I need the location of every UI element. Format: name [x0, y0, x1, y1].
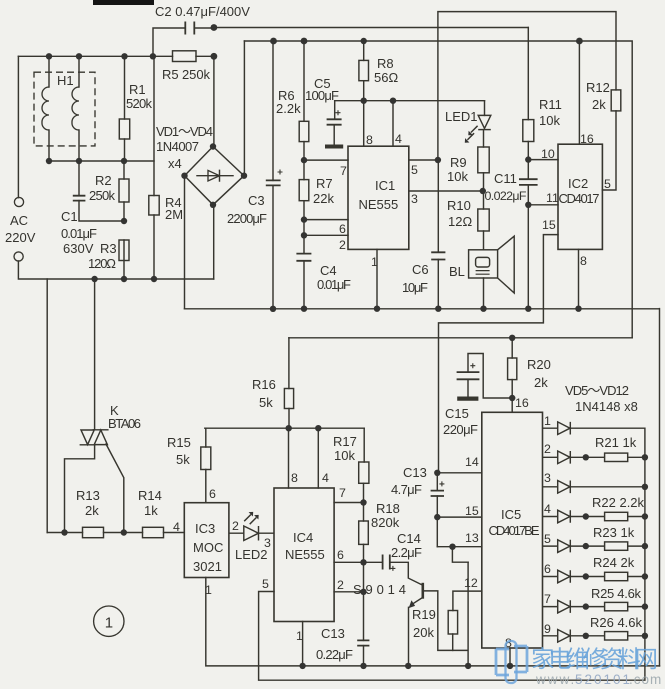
svg-text:5: 5: [262, 577, 269, 591]
svg-text:250k: 250k: [89, 188, 116, 203]
svg-text:C4: C4: [320, 263, 337, 278]
svg-text:2: 2: [337, 578, 344, 592]
svg-text:IC1: IC1: [375, 178, 395, 193]
svg-text:C6: C6: [412, 262, 429, 277]
svg-text:C14: C14: [397, 531, 421, 546]
svg-text:520101: 520101: [575, 672, 632, 687]
svg-text:120Ω: 120Ω: [88, 256, 116, 271]
svg-text:VD5～VD12: VD5～VD12: [565, 383, 629, 398]
svg-text:IC3: IC3: [195, 521, 215, 536]
svg-text:VD1～VD4: VD1～VD4: [156, 124, 213, 139]
svg-text:R24 2k: R24 2k: [593, 555, 635, 570]
svg-text:10: 10: [541, 147, 555, 161]
svg-text:2: 2: [544, 442, 551, 456]
svg-text:R2: R2: [95, 173, 112, 188]
svg-text:2k: 2k: [85, 503, 99, 518]
svg-text:2: 2: [232, 519, 239, 533]
svg-text:630V: 630V: [63, 241, 94, 256]
svg-text:2.2μF: 2.2μF: [391, 545, 422, 560]
svg-text:R18: R18: [376, 501, 400, 516]
svg-text:7: 7: [339, 486, 346, 500]
svg-text:MOC: MOC: [193, 540, 223, 555]
svg-text:LED1: LED1: [445, 109, 478, 124]
svg-text:x4: x4: [168, 156, 182, 171]
svg-text:12Ω: 12Ω: [448, 214, 472, 229]
svg-text:10k: 10k: [447, 169, 468, 184]
svg-text:0.01μF: 0.01μF: [61, 226, 97, 241]
svg-text:C13: C13: [403, 465, 427, 480]
svg-text:2: 2: [339, 238, 346, 252]
svg-text:0.01μF: 0.01μF: [317, 277, 351, 292]
svg-text:1: 1: [544, 414, 551, 428]
svg-text:11: 11: [546, 191, 559, 205]
svg-text:2.2k: 2.2k: [276, 101, 301, 116]
svg-text:16: 16: [515, 396, 529, 410]
svg-text:3021: 3021: [193, 559, 222, 574]
svg-text:5: 5: [411, 163, 418, 177]
svg-text:1N4148 x8: 1N4148 x8: [575, 399, 638, 414]
svg-text:C11: C11: [494, 171, 517, 186]
svg-text:4.7μF: 4.7μF: [391, 482, 422, 497]
svg-text:2k: 2k: [534, 375, 548, 390]
svg-text:0.022μF: 0.022μF: [485, 189, 527, 203]
svg-text:520k: 520k: [126, 96, 153, 111]
svg-text:22k: 22k: [313, 191, 334, 206]
svg-text:220μF: 220μF: [443, 422, 478, 437]
svg-text:C1: C1: [61, 209, 78, 224]
svg-text:4: 4: [322, 471, 329, 485]
svg-text:10k: 10k: [539, 113, 560, 128]
svg-text:16: 16: [580, 132, 594, 146]
svg-text:12: 12: [464, 576, 478, 590]
svg-text:C13: C13: [321, 626, 345, 641]
svg-text:2M: 2M: [165, 207, 183, 222]
svg-text:7: 7: [340, 164, 347, 178]
svg-text:R23 1k: R23 1k: [593, 525, 635, 540]
svg-text:R1: R1: [129, 82, 146, 97]
svg-text:R14: R14: [138, 488, 162, 503]
svg-text:LED2: LED2: [235, 547, 268, 562]
svg-text:10μF: 10μF: [402, 280, 428, 295]
svg-text:R25 4.6k: R25 4.6k: [591, 586, 642, 601]
svg-text:3: 3: [544, 471, 551, 485]
svg-text:9: 9: [544, 622, 551, 636]
svg-text:NE555: NE555: [285, 547, 325, 562]
svg-text:R13: R13: [76, 488, 100, 503]
svg-text:CD4017: CD4017: [559, 191, 600, 206]
svg-text:14: 14: [465, 455, 479, 469]
svg-text:13: 13: [465, 531, 479, 545]
svg-text:R9: R9: [450, 155, 467, 170]
svg-text:R3: R3: [100, 241, 117, 256]
svg-text:0.22μF: 0.22μF: [316, 647, 353, 662]
svg-text:4: 4: [395, 132, 402, 146]
svg-text:5k: 5k: [176, 452, 190, 467]
svg-text:1k: 1k: [144, 503, 158, 518]
svg-text:NE555: NE555: [359, 197, 399, 212]
svg-text:R20: R20: [527, 357, 551, 372]
svg-text:3: 3: [411, 192, 418, 206]
svg-text:4: 4: [544, 502, 551, 516]
svg-text:CD4017BE: CD4017BE: [489, 523, 540, 538]
svg-text:8: 8: [291, 471, 298, 485]
svg-text:BTA06: BTA06: [108, 416, 141, 431]
svg-text:1: 1: [371, 255, 378, 269]
svg-text:6: 6: [544, 562, 551, 576]
svg-text:8: 8: [580, 254, 587, 268]
svg-text:R11: R11: [539, 97, 562, 112]
svg-text:R10: R10: [447, 198, 471, 213]
svg-text:2200μF: 2200μF: [227, 211, 267, 226]
svg-text:IC2: IC2: [568, 176, 588, 191]
svg-text:R8: R8: [377, 56, 394, 71]
svg-text:4: 4: [173, 520, 180, 534]
svg-text:R22 2.2k: R22 2.2k: [592, 495, 645, 510]
svg-text:820k: 820k: [371, 515, 400, 530]
svg-text:5k: 5k: [259, 395, 273, 410]
svg-text:5: 5: [544, 532, 551, 546]
svg-text:1: 1: [296, 629, 303, 643]
svg-text:8: 8: [366, 133, 373, 147]
svg-text:6: 6: [209, 487, 216, 501]
svg-text:R17: R17: [333, 434, 357, 449]
svg-text:1: 1: [105, 615, 113, 632]
svg-text:R15: R15: [167, 435, 191, 450]
svg-text:6: 6: [339, 222, 346, 236]
svg-text:R21 1k: R21 1k: [595, 435, 637, 450]
svg-text:6: 6: [337, 548, 344, 562]
svg-text:15: 15: [465, 504, 479, 518]
svg-text:C2 0.47μF/400V: C2 0.47μF/400V: [155, 4, 250, 19]
svg-text:BL: BL: [449, 264, 465, 279]
svg-text:R26 4.6k: R26 4.6k: [590, 615, 643, 630]
svg-text:.com: .com: [629, 672, 662, 687]
svg-text:R5 250k: R5 250k: [162, 67, 211, 82]
svg-text:56Ω: 56Ω: [374, 70, 398, 85]
svg-text:IC5: IC5: [501, 507, 521, 522]
svg-text:R12: R12: [586, 80, 610, 95]
svg-text:5: 5: [604, 177, 611, 191]
svg-text:C3: C3: [248, 193, 265, 208]
svg-text:20k: 20k: [413, 625, 434, 640]
svg-text:2k: 2k: [592, 97, 606, 112]
svg-text:家电维修资料网: 家电维修资料网: [531, 646, 658, 672]
svg-text:15: 15: [542, 218, 556, 232]
svg-text:100μF: 100μF: [305, 88, 339, 103]
svg-text:10k: 10k: [334, 448, 355, 463]
svg-text:AC: AC: [10, 213, 28, 228]
svg-text:3: 3: [264, 536, 271, 550]
svg-text:1: 1: [205, 583, 212, 597]
svg-text:www.: www.: [535, 672, 576, 687]
svg-text:S9014: S9014: [353, 582, 406, 597]
svg-text:C15: C15: [445, 406, 469, 421]
svg-text:R7: R7: [316, 176, 333, 191]
svg-text:R19: R19: [412, 607, 436, 622]
svg-text:R16: R16: [252, 377, 276, 392]
svg-text:H1: H1: [57, 73, 74, 88]
svg-text:7: 7: [544, 592, 551, 606]
svg-text:IC4: IC4: [293, 530, 313, 545]
svg-text:220V: 220V: [5, 230, 36, 245]
svg-text:1N4007: 1N4007: [156, 139, 199, 154]
